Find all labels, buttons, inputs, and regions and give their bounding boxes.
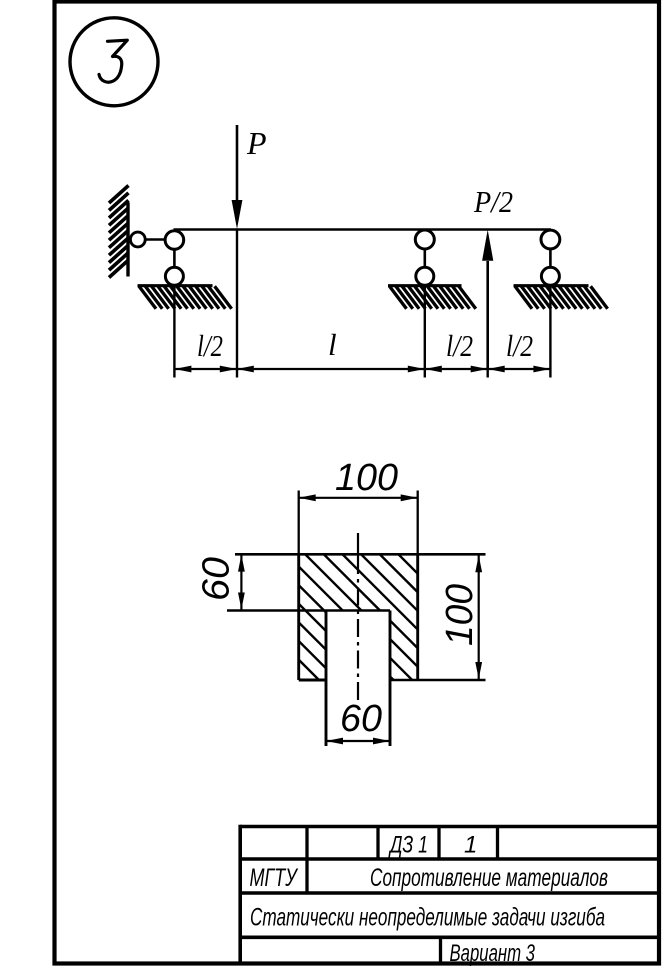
- support B roller: [416, 267, 434, 285]
- svg-text:60: 60: [196, 557, 238, 601]
- support B ground: [388, 286, 476, 309]
- wall support: [109, 186, 129, 278]
- svg-text:l: l: [328, 327, 337, 362]
- section outline: [299, 554, 418, 680]
- support B pin: [415, 230, 434, 249]
- wall pin: [130, 232, 145, 247]
- dimension line beam: [174, 368, 550, 370]
- dim arrows l/2 segment 4: [488, 366, 505, 373]
- title block column dividers: [307, 827, 498, 964]
- link wall to beam: [145, 238, 165, 241]
- title block frame: [240, 825, 659, 964]
- support A vertical link: [173, 248, 176, 268]
- dim 60 bottom line: [326, 740, 390, 742]
- svg-text:60: 60: [340, 698, 382, 740]
- section bottom edge with right extension line: [390, 679, 486, 682]
- dim 100 top line: [299, 497, 418, 499]
- section centerline: [357, 533, 359, 700]
- svg-text:Статически неопределимые задач: Статически неопределимые задачи изгиба: [250, 904, 605, 932]
- svg-text:1: 1: [464, 832, 477, 859]
- support C roller: [541, 267, 559, 285]
- extension line support B: [424, 285, 426, 378]
- extension line support C: [549, 285, 551, 378]
- variant number 3: [99, 40, 127, 82]
- force P/2 arrow: [486, 261, 489, 370]
- support B vertical link: [423, 248, 426, 268]
- force P arrow: [236, 125, 239, 202]
- section notch sides / extension lines for 60: [325, 611, 328, 747]
- svg-text:МГТУ: МГТУ: [250, 864, 299, 892]
- variant circle: [70, 18, 158, 106]
- svg-text:P/2: P/2: [473, 184, 513, 219]
- extension line force P/2: [487, 370, 489, 378]
- support C ground: [514, 286, 608, 309]
- dim arrows l/2 segment 3: [425, 366, 442, 373]
- support C pin: [541, 230, 560, 249]
- section top edge with extension lines: [235, 553, 486, 556]
- dim 100 top extension lines: [298, 491, 300, 555]
- svg-text:ДЗ 1: ДЗ 1: [388, 832, 428, 859]
- svg-text:Сопротивление материалов: Сопротивление материалов: [370, 864, 608, 892]
- beam: [174, 228, 552, 231]
- support A roller: [165, 267, 183, 285]
- support C vertical link: [549, 248, 552, 268]
- svg-text:l/2: l/2: [446, 328, 473, 363]
- svg-text:100: 100: [439, 584, 481, 646]
- svg-text:P: P: [246, 125, 267, 161]
- svg-text:l/2: l/2: [197, 328, 223, 363]
- dim arrows l/2 segment 1: [174, 366, 191, 373]
- extension line force P: [236, 229, 238, 378]
- support A ground: [138, 286, 232, 309]
- extension line support A: [173, 285, 175, 378]
- svg-text:l/2: l/2: [506, 328, 533, 363]
- dim arrows l segment: [237, 366, 254, 373]
- notch top edge with extension line: [227, 609, 390, 612]
- beam end pin A: [165, 231, 184, 250]
- svg-text:Вариант 3: Вариант 3: [450, 940, 536, 967]
- dim 60 left line: [240, 554, 242, 611]
- svg-text:100: 100: [335, 457, 398, 499]
- dim 100 right line: [478, 554, 480, 680]
